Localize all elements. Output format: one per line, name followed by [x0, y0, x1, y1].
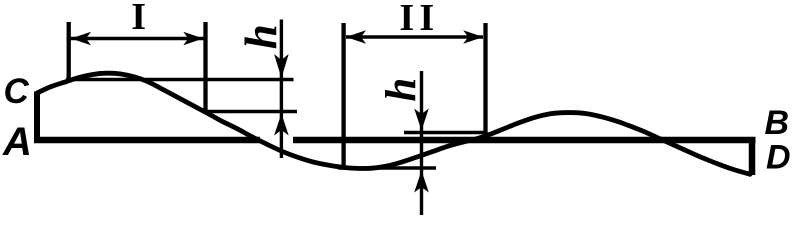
h dimension shaft (section II): [420, 71, 423, 215]
h down arrow (section II): [414, 109, 429, 131]
svg-text:B: B: [765, 104, 790, 142]
section I left extension line: [67, 22, 71, 80]
svg-text:h: h: [378, 78, 425, 102]
trough level line: [338, 166, 436, 170]
section I lower level line: [205, 110, 297, 114]
svg-text:C: C: [4, 72, 30, 111]
svg-text:I: I: [131, 0, 146, 38]
section I dimension line: [70, 37, 204, 40]
right edge B-D: [749, 137, 756, 175]
h up arrow (section II): [414, 171, 429, 193]
left edge A-C: [34, 92, 40, 144]
baseline AB left segment: [34, 137, 260, 143]
section II dimension right arrow: [463, 30, 483, 44]
section II dimension left arrow: [346, 30, 366, 44]
svg-text:A: A: [2, 120, 32, 164]
crest level line: [66, 78, 294, 82]
svg-text:h: h: [236, 24, 286, 49]
section I dimension left arrow: [71, 32, 91, 46]
h down arrow (section I): [274, 54, 289, 78]
section II surface level line: [404, 131, 486, 134]
wave curve C to D: [37, 73, 750, 174]
svg-text:I: I: [399, 0, 414, 39]
section I dimension right arrow: [183, 32, 203, 46]
h dimension shaft (section I): [280, 20, 283, 159]
section II right extension line: [483, 23, 487, 136]
svg-text:D: D: [766, 139, 791, 177]
baseline AB right segment: [293, 137, 756, 143]
section II dimension line: [346, 35, 483, 38]
section II left extension line: [341, 23, 345, 167]
svg-text:I: I: [419, 0, 434, 39]
h up arrow (section I): [274, 114, 289, 136]
section I right extension line: [203, 22, 207, 113]
